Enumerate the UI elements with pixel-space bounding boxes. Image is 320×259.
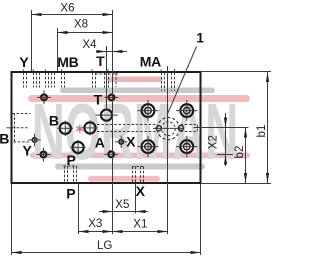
dimension b1 <box>255 72 269 183</box>
watermark gray bar bottom <box>55 164 205 170</box>
svg-text:X4: X4 <box>82 38 97 51</box>
watermark gray bar top <box>60 88 215 94</box>
extension line bolt column <box>112 10 114 234</box>
svg-text:X1: X1 <box>133 218 147 231</box>
bolt hole bottom left <box>41 152 47 158</box>
cavity dashed circle 1 <box>157 118 179 140</box>
extension line top edge right <box>201 71 271 73</box>
watermark pink bar 2 <box>30 153 250 159</box>
svg-text:P: P <box>66 186 75 202</box>
extension line center axis right <box>194 127 249 129</box>
svg-text:P: P <box>66 152 75 168</box>
block outline <box>12 72 201 183</box>
port circle T <box>101 110 112 121</box>
mounting hole top right <box>176 100 197 121</box>
svg-text:Y: Y <box>22 142 32 158</box>
extension line LG right <box>200 184 202 255</box>
mini circle right <box>178 125 183 130</box>
port circle A <box>84 122 95 133</box>
svg-text:LG: LG <box>97 239 112 252</box>
svg-text:X5: X5 <box>115 198 129 211</box>
svg-text:X8: X8 <box>74 18 88 31</box>
svg-text:b1: b1 <box>255 125 268 138</box>
cavity crosshair vertical <box>167 116 169 142</box>
svg-text:1: 1 <box>196 30 204 46</box>
bolt hole bottom right <box>108 151 114 157</box>
svg-text:X6: X6 <box>60 2 74 15</box>
left edge hidden depth line <box>14 113 16 142</box>
left edge B port tick <box>7 127 16 129</box>
Y channel dashed <box>14 141 30 143</box>
mounting hole top left <box>138 100 159 121</box>
dimension X3 <box>79 217 113 233</box>
svg-text:B: B <box>0 131 9 147</box>
mini circle left <box>156 126 161 131</box>
watermark text NORMAN <box>32 87 239 177</box>
extension line T column <box>106 46 108 110</box>
bolt hole top right <box>109 95 115 101</box>
svg-text:B: B <box>49 113 59 129</box>
mounting hole bottom left <box>138 136 159 157</box>
left edge stub centerline <box>17 127 30 129</box>
svg-text:b2: b2 <box>233 146 246 159</box>
bottom edge hidden hole P port <box>64 166 78 183</box>
svg-text:X: X <box>126 133 136 149</box>
dimension X5 <box>99 198 148 213</box>
dimension X6 <box>32 2 113 17</box>
dimension X8 <box>58 18 113 35</box>
top edge hidden hole T port <box>93 73 119 88</box>
top edge hidden hole MA port <box>162 73 175 92</box>
svg-text:T: T <box>96 53 105 69</box>
top edge hidden hole Y port <box>24 73 40 88</box>
dimension X1 <box>113 218 168 234</box>
leader 1 <box>168 47 196 113</box>
watermark pink bar small top <box>107 77 163 83</box>
cavity crosshair horizontal <box>153 127 184 129</box>
watermark pink bar 1 <box>28 95 250 102</box>
svg-text:X: X <box>136 183 146 199</box>
svg-text:NORMAN: NORMAN <box>32 87 239 177</box>
extension line X6 left <box>31 10 33 71</box>
port circle Y small <box>32 138 37 143</box>
extension line LG left <box>11 184 13 255</box>
svg-text:A: A <box>95 135 105 151</box>
left edge stub upper <box>12 113 31 115</box>
edge tick marks <box>23 69 174 72</box>
watermark red asterisk <box>76 125 83 133</box>
top edge hidden hole MB port <box>46 73 65 88</box>
extension line P column <box>78 184 80 234</box>
dimension X4 <box>82 38 127 53</box>
mounting hole bottom right <box>176 136 197 157</box>
bolt hole top left <box>41 94 47 100</box>
dimension b2 <box>233 128 247 184</box>
port circle P <box>73 142 84 153</box>
svg-text:X3: X3 <box>88 217 102 230</box>
dimension X2 <box>207 113 228 166</box>
port circle X small <box>119 140 124 145</box>
svg-text:Y: Y <box>19 54 29 70</box>
extension line X column <box>135 184 137 214</box>
svg-text:MB: MB <box>57 54 78 70</box>
dimension LG <box>12 239 201 254</box>
extension line bottom edge right <box>201 183 271 185</box>
watermark pink bar 3 <box>88 176 160 182</box>
svg-text:MA: MA <box>140 54 161 70</box>
center channel dashed lines <box>97 124 157 126</box>
port circle B <box>60 123 71 134</box>
svg-text:T: T <box>94 91 103 107</box>
svg-text:X2: X2 <box>207 135 220 149</box>
extension line X8 left <box>57 28 59 71</box>
extension line X2 bottom <box>217 154 233 156</box>
extension line MA column <box>167 66 169 117</box>
bottom edge hidden hole X port <box>132 167 144 183</box>
